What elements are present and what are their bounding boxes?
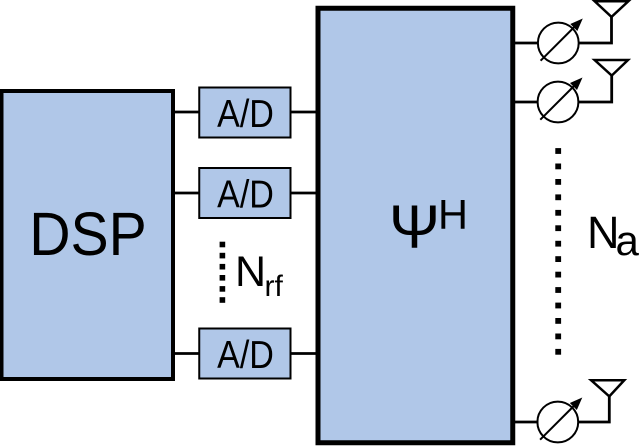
phase shifter 3 (537, 398, 582, 443)
wire A/D 2 to combiner (291, 192, 318, 195)
wire A/D 3 to combiner (291, 352, 318, 355)
svg-text:DSP: DSP (29, 199, 147, 268)
wire phase shifter 3 to antenna 3 (578, 396, 609, 422)
label N_rf (235, 248, 283, 303)
antenna 3 (591, 380, 624, 396)
A/D converter 2 (199, 168, 290, 218)
svg-text:A/D: A/D (217, 333, 274, 377)
antenna 2 (595, 60, 628, 76)
A/D converter 1 (199, 88, 290, 138)
wire DSP to A/D 2 (173, 192, 200, 195)
svg-text:A/D: A/D (217, 92, 274, 136)
DSP block (2, 91, 174, 379)
wire A/D 1 to combiner (291, 111, 318, 114)
wire combiner to phase shifter 3 (513, 421, 539, 424)
dotted ellipsis between antenna 2 and antenna 3 (555, 148, 561, 355)
analog combiner block Psi^H (318, 8, 513, 443)
svg-text:A/D: A/D (217, 173, 274, 217)
A/D converter 3 (199, 329, 290, 379)
antenna 1 (595, 1, 629, 17)
svg-text:a: a (616, 217, 640, 264)
wire DSP to A/D 1 (173, 111, 200, 114)
wire phase shifter 1 to antenna 1 (579, 17, 612, 43)
phase shifter 2 (538, 78, 583, 123)
phase shifter 1 (538, 19, 583, 64)
label N_a (587, 207, 640, 264)
dotted ellipsis between A/D 2 and A/D 3 (220, 242, 226, 303)
wire phase shifter 2 to antenna 2 (578, 76, 611, 102)
wire combiner to phase shifter 1 (513, 42, 539, 45)
svg-text:H: H (438, 191, 468, 238)
svg-text:Ψ: Ψ (389, 193, 440, 261)
svg-text:rf: rf (265, 270, 284, 303)
wire DSP to A/D 3 (173, 352, 200, 355)
wire combiner to phase shifter 2 (513, 101, 539, 104)
svg-text:N: N (235, 248, 266, 296)
